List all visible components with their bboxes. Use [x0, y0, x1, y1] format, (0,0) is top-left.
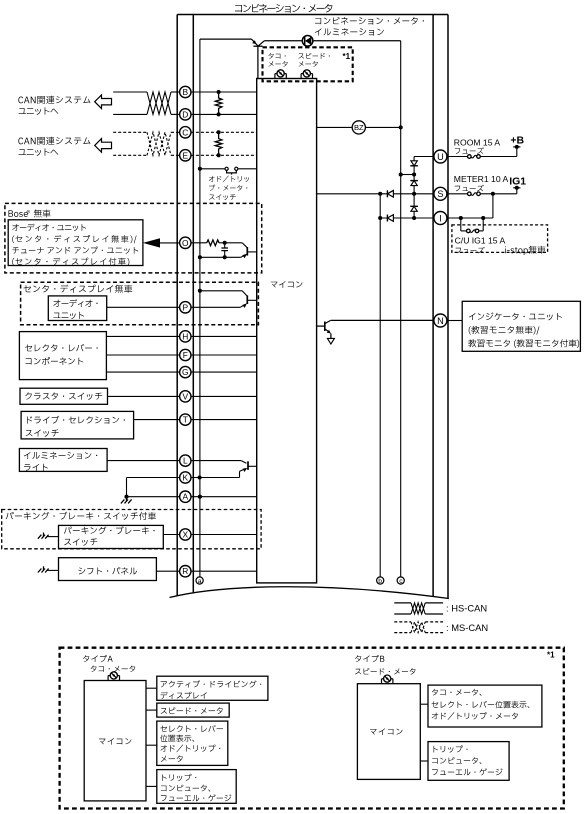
wire buzzer to node [365, 126, 400, 128]
label: Bose no-car [8, 210, 27, 217]
wire K right [191, 477, 240, 479]
pin H [180, 331, 191, 342]
svg-text:c: c [399, 578, 403, 585]
wire H [106, 335, 179, 337]
parking brake switch box [59, 525, 164, 548]
svg-text:H: H [182, 331, 188, 341]
parking brake dashed box [2, 510, 261, 549]
pin N [434, 314, 447, 327]
speed meter lamp [300, 74, 302, 79]
wire S to microcomputer [317, 193, 434, 195]
svg-text:V: V [183, 391, 189, 401]
pin T [180, 414, 191, 425]
label: audio unit [53, 299, 97, 307]
wire P left [107, 306, 180, 308]
label: combination meter illumination [315, 17, 424, 25]
label: type B microcomputer [370, 728, 403, 735]
wire A [127, 496, 180, 498]
svg-text:F: F [183, 350, 188, 360]
pin P [180, 302, 191, 313]
audio unit box [48, 296, 106, 321]
wire U to diode chain [414, 156, 434, 158]
left connector bus line [192, 15, 194, 599]
wire F [106, 354, 179, 356]
wire G [106, 371, 179, 373]
MS-CAN legend symbol [394, 621, 411, 623]
label: odo/trip meter switch [209, 176, 249, 183]
wire X [163, 534, 179, 536]
label: parking brake switch [64, 526, 155, 534]
pin U [434, 150, 447, 163]
label: type B tacho box [432, 689, 482, 696]
svg-text:E: E [183, 150, 189, 160]
pin O wire with resistor [191, 242, 207, 244]
svg-text:*1: *1 [343, 52, 351, 61]
microcomputer box [257, 79, 317, 583]
transistor O [242, 243, 247, 248]
wire odo/trip switch [198, 167, 202, 171]
drive selection switch box [21, 411, 134, 439]
svg-text:ROOM 15 A: ROOM 15 A [454, 138, 501, 148]
svg-text:L: L [183, 456, 188, 466]
type A/B dashed box [60, 648, 564, 809]
svg-text:R: R [182, 566, 188, 576]
ROOM fuse [468, 155, 472, 159]
buzzer BZ [352, 121, 365, 134]
type A speedometer box [157, 703, 229, 717]
label: drive selection switch [27, 416, 125, 424]
tacho/speed meter dashed box [263, 47, 353, 81]
outer combination-meter box [176, 15, 178, 600]
svg-text:N: N [437, 316, 444, 326]
type A select lever box [157, 721, 228, 765]
pin S [434, 187, 447, 200]
wire V [108, 395, 180, 397]
label: type A trip computer box [162, 774, 196, 781]
svg-text:: HS-CAN: : HS-CAN [446, 603, 487, 614]
wire C (MS-CAN high) [113, 131, 147, 133]
label: i-stop no-car [505, 246, 545, 255]
svg-text:b: b [378, 578, 382, 585]
pin D [180, 109, 191, 120]
pin L [180, 455, 191, 466]
wire microcomputer to buzzer [317, 126, 353, 128]
type A active driving display box [157, 676, 268, 700]
type B microcomputer box [357, 684, 420, 780]
diode D1 (from U) [411, 161, 417, 166]
stub down to microcomputer top corner [257, 46, 259, 78]
ground (K/A) [126, 497, 128, 502]
pin A [180, 491, 191, 502]
type A stub 3 [146, 744, 157, 746]
wire B (HS-CAN high) [113, 91, 147, 93]
cluster switch box [20, 388, 108, 404]
label: CAN system units 2 [18, 137, 90, 145]
type B stub 1 [420, 703, 428, 705]
type B trip computer box [428, 742, 509, 781]
label: audio unit (Bose) [12, 224, 86, 231]
type B tacho box [428, 685, 542, 727]
pin V [180, 391, 191, 402]
termination resistor between C and E [217, 130, 221, 134]
svg-text:D: D [182, 109, 188, 119]
label: type A [83, 655, 113, 662]
transistor L [191, 460, 241, 462]
type B speed lamp [381, 679, 383, 684]
diode on I wire [387, 215, 393, 222]
wire I [380, 217, 434, 219]
node arrow into meter illumination feed [252, 39, 258, 46]
pin I [434, 212, 447, 225]
pin a [196, 577, 203, 584]
label: type A tacho meter [91, 666, 136, 672]
label: type A speed meter box [161, 707, 223, 714]
arrow to audio unit [143, 238, 160, 247]
center-display-less dashed box [21, 282, 259, 325]
capacitor [224, 243, 226, 248]
svg-text:IG1: IG1 [509, 175, 526, 187]
type A trip computer box [157, 770, 236, 804]
wire L [107, 460, 180, 462]
svg-text:a: a [198, 578, 202, 585]
svg-text:T: T [183, 415, 188, 425]
termination resistor between B and D [217, 90, 221, 94]
ground (parking) [48, 536, 59, 538]
wire down from illumination to BZ node [400, 41, 402, 577]
inner conductor (left) down to pin a [199, 39, 201, 577]
wire D (HS-CAN low) [113, 113, 147, 115]
HS-CAN twisted pair [147, 92, 171, 114]
wire T [134, 419, 180, 421]
svg-text:K: K [183, 473, 189, 483]
svg-text:+B: +B [510, 134, 524, 146]
type A stub 4 [146, 785, 157, 787]
node to illumination line [412, 172, 416, 176]
label: parking brake switch car [6, 512, 156, 520]
svg-text:G: G [182, 367, 189, 377]
CAN arrow 2 [95, 139, 112, 153]
label: type B [355, 655, 384, 662]
wire E (MS-CAN low) [113, 154, 147, 156]
wire S to METER1 fuse to IG1 [447, 193, 468, 195]
svg-text:C/U IG1 15 A: C/U IG1 15 A [455, 236, 506, 246]
svg-text:BZ: BZ [354, 123, 364, 132]
illumination lamp (circled diode) [302, 36, 313, 47]
svg-text:S: S [437, 189, 443, 199]
wire R [156, 570, 179, 572]
svg-text:C: C [182, 127, 188, 137]
diode D3 (from I) [413, 194, 415, 207]
label: combination meter title [235, 4, 332, 13]
svg-text:*1: *1 [547, 650, 555, 659]
illumination wire [258, 41, 265, 47]
svg-text:: MS-CAN: : MS-CAN [446, 622, 488, 633]
svg-text:B: B [183, 87, 189, 97]
wire K left to ground [127, 477, 180, 479]
label: illumination light [24, 452, 97, 459]
diode D2 (from S) [413, 175, 415, 181]
emitter wire from conductor [198, 255, 202, 259]
label: cluster switch [25, 392, 102, 399]
type A microcomputer box [84, 681, 146, 801]
METER1 fuse [468, 192, 472, 196]
pin C [180, 127, 191, 138]
selector lever component box [19, 332, 106, 380]
Bose dashed box [5, 203, 262, 273]
label: center display less [24, 285, 133, 293]
svg-text:I: I [439, 213, 442, 223]
type A stub 2 [146, 709, 157, 711]
label: type B speed meter [355, 668, 415, 675]
HS-CAN legend symbol [394, 602, 411, 604]
pin G [180, 366, 191, 377]
vertical wire to pin b [379, 194, 381, 577]
wire U to ROOM fuse to +B [447, 156, 468, 158]
label: tacho meter (dashed box) [268, 53, 285, 59]
tacho meter lamp [274, 74, 276, 79]
label: select lever box [160, 725, 223, 732]
indicator unit box [447, 320, 462, 322]
type B stub 2 [420, 760, 428, 762]
right connector bus line [432, 15, 434, 601]
pin O [180, 237, 191, 248]
odo/trip meter switch [225, 167, 228, 170]
transistor at microcomputer right (indicator driver) [317, 325, 325, 327]
illumination light box [19, 449, 107, 472]
diode on S wire [387, 190, 393, 197]
svg-text:X: X [183, 530, 189, 540]
label: speed meter (dashed box) [298, 53, 329, 59]
label: shift panel [79, 567, 138, 575]
label: indicator unit [469, 312, 562, 320]
type A stub 1 [146, 687, 157, 689]
label: type A microcomputer [99, 738, 132, 745]
svg-text:METER1 10 A: METER1 10 A [454, 174, 509, 184]
label: selector lever component [25, 344, 98, 352]
pin E [180, 150, 191, 161]
pin F [180, 349, 191, 360]
label: microcomputer [271, 281, 303, 288]
open arrow to ground (indicator signal) [330, 334, 332, 339]
pin X [180, 529, 191, 540]
i-stop dashed box [452, 225, 548, 253]
svg-text:O: O [182, 238, 189, 248]
label: type B trip computer box [434, 745, 468, 752]
CAN arrow 1 [95, 95, 112, 109]
wave break line [170, 587, 449, 612]
wire from inner conductor top to illumination [200, 38, 252, 40]
svg-text:P: P [183, 302, 189, 312]
svg-text:A: A [183, 492, 189, 502]
type A tacho lamp [107, 676, 109, 681]
C/U IG1 fuse loop [460, 218, 462, 231]
pin b [377, 577, 384, 584]
wire I to IG1 branch [447, 217, 493, 219]
transistor P [198, 289, 202, 293]
shift panel box [59, 558, 157, 581]
MS-CAN twisted pair (dashed) [147, 132, 171, 155]
pin c [397, 577, 404, 584]
audio unit box (Bose) [8, 220, 143, 266]
ground (shift) [48, 569, 59, 571]
pin B [180, 86, 191, 97]
junction crossbar [253, 45, 262, 47]
label: CAN system units 1 [18, 96, 90, 104]
pin K [180, 472, 191, 483]
label: active driving display [161, 680, 262, 687]
svg-text:U: U [437, 152, 444, 162]
pin R [180, 566, 191, 577]
